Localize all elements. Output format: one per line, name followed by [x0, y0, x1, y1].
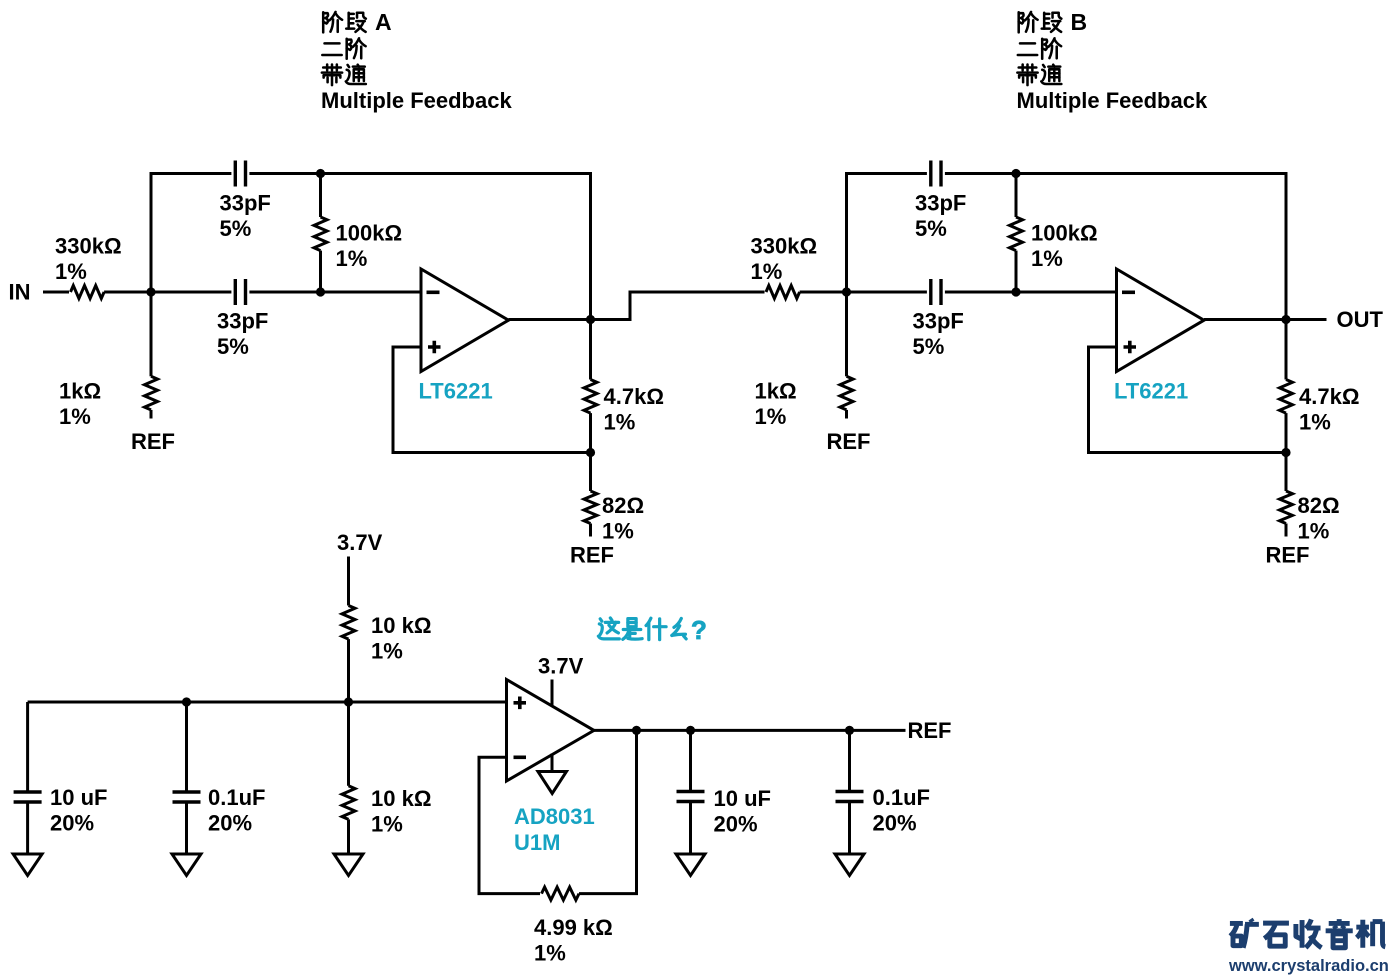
svg-text:20%: 20%	[50, 811, 94, 836]
svg-text:A: A	[375, 9, 392, 35]
svg-text:33pF: 33pF	[915, 191, 966, 216]
svg-text:33pF: 33pF	[217, 309, 268, 334]
svg-text:1%: 1%	[371, 639, 403, 664]
svg-text:1%: 1%	[602, 519, 634, 544]
svg-text:20%: 20%	[714, 812, 758, 837]
svg-text:REF: REF	[827, 429, 871, 454]
svg-text:3.7V: 3.7V	[538, 654, 584, 679]
svg-text:4.7kΩ: 4.7kΩ	[1299, 384, 1359, 409]
svg-text:4.99 kΩ: 4.99 kΩ	[534, 915, 613, 940]
svg-text:B: B	[1071, 9, 1088, 35]
svg-text:1%: 1%	[751, 259, 783, 284]
svg-text:0.1uF: 0.1uF	[873, 785, 930, 810]
svg-text:REF: REF	[1266, 543, 1310, 568]
svg-text:330kΩ: 330kΩ	[55, 234, 122, 259]
svg-text:10 kΩ: 10 kΩ	[371, 786, 431, 811]
svg-text:10 uF: 10 uF	[50, 785, 107, 810]
svg-text:OUT: OUT	[1337, 307, 1384, 332]
svg-text:10 uF: 10 uF	[714, 786, 771, 811]
svg-text:5%: 5%	[217, 334, 249, 359]
svg-text:5%: 5%	[220, 216, 252, 241]
svg-text:10 kΩ: 10 kΩ	[371, 613, 431, 638]
svg-text:www.crystalradio.cn: www.crystalradio.cn	[1228, 957, 1389, 975]
svg-text:3.7V: 3.7V	[337, 530, 383, 555]
svg-text:20%: 20%	[208, 811, 252, 836]
svg-text:33pF: 33pF	[220, 191, 271, 216]
svg-text:Multiple Feedback: Multiple Feedback	[321, 88, 512, 113]
svg-text:100kΩ: 100kΩ	[1031, 221, 1098, 246]
svg-text:AD8031: AD8031	[514, 804, 595, 829]
svg-text:0.1uF: 0.1uF	[208, 785, 265, 810]
svg-text:1%: 1%	[1031, 246, 1063, 271]
svg-text:1%: 1%	[1299, 410, 1331, 435]
svg-text:1%: 1%	[59, 404, 91, 429]
svg-text:1%: 1%	[755, 404, 787, 429]
svg-text:1%: 1%	[534, 941, 566, 966]
svg-text:5%: 5%	[915, 216, 947, 241]
svg-text:1kΩ: 1kΩ	[59, 379, 101, 404]
svg-text:5%: 5%	[913, 334, 945, 359]
svg-text:33pF: 33pF	[913, 309, 964, 334]
svg-text:LT6221: LT6221	[1114, 379, 1188, 404]
svg-text:100kΩ: 100kΩ	[336, 221, 403, 246]
svg-text:U1M: U1M	[514, 830, 560, 855]
svg-text:1%: 1%	[336, 246, 368, 271]
svg-text:IN: IN	[9, 280, 31, 305]
svg-text:1%: 1%	[1298, 519, 1330, 544]
svg-text:?: ?	[691, 615, 707, 645]
svg-text:82Ω: 82Ω	[602, 493, 644, 518]
svg-text:Multiple Feedback: Multiple Feedback	[1017, 88, 1208, 113]
svg-text:1%: 1%	[55, 259, 87, 284]
svg-text:1kΩ: 1kΩ	[755, 379, 797, 404]
svg-text:330kΩ: 330kΩ	[751, 234, 818, 259]
svg-text:REF: REF	[908, 718, 952, 743]
svg-text:1%: 1%	[604, 410, 636, 435]
svg-text:20%: 20%	[873, 811, 917, 836]
svg-text:REF: REF	[131, 429, 175, 454]
svg-text:LT6221: LT6221	[419, 379, 493, 404]
svg-text:82Ω: 82Ω	[1298, 493, 1340, 518]
svg-text:4.7kΩ: 4.7kΩ	[604, 384, 664, 409]
svg-text:REF: REF	[570, 543, 614, 568]
svg-text:1%: 1%	[371, 812, 403, 837]
